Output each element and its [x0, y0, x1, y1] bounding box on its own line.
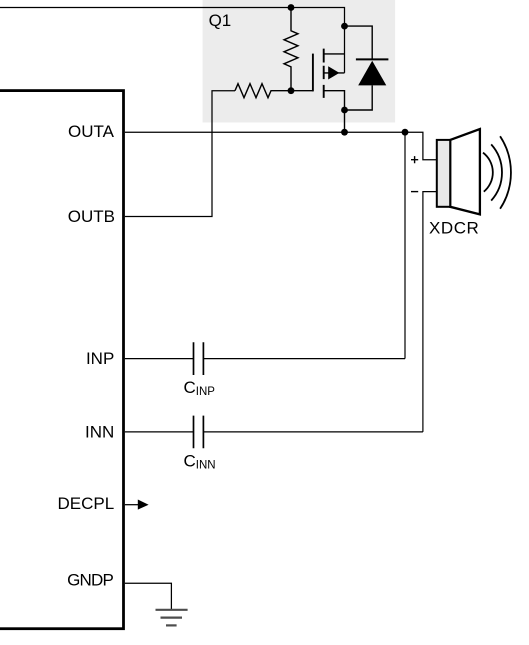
svg-text:INN: INN [85, 422, 114, 441]
ground symbol [156, 609, 188, 611]
junction dot (resistor top / rail) [288, 4, 295, 11]
junction dot (gate node) [288, 87, 295, 94]
svg-text:INP: INP [86, 349, 114, 368]
svg-text:DECPL: DECPL [58, 494, 115, 513]
wire OUTA to transducer plus [125, 132, 437, 160]
svg-text:OUTB: OUTB [68, 207, 115, 226]
transducer minus sign [411, 191, 418, 193]
wire OUTA junction down to INP coupling [404, 132, 406, 358]
wire INN to capacitor [125, 431, 194, 433]
svg-text:Q1: Q1 [209, 11, 231, 30]
sound wave arc 3 [500, 136, 511, 209]
IC block (partial, left) [0, 91, 124, 629]
sound wave arc 1 [483, 153, 493, 192]
transducer plus sign [411, 156, 418, 163]
speaker XDCR body [437, 140, 450, 207]
speaker XDCR cone [450, 129, 480, 214]
wire diode branch top [345, 26, 373, 59]
wire transducer minus down to INN coupling [423, 192, 437, 432]
diode cathode bar [356, 58, 389, 60]
capacitor CINP plates [194, 342, 204, 375]
transistor Q1 channel segments [323, 49, 325, 98]
transistor Q1 source connection [324, 91, 345, 110]
transistor Q1 body arrow [328, 66, 339, 79]
DECPL arrowhead [138, 500, 149, 510]
diode body [358, 61, 386, 86]
transistor Q1 drain connection [324, 53, 345, 55]
wire capacitor to INP branch [203, 358, 405, 360]
junction dot (OUTA at INP branch) [402, 129, 409, 136]
wire capacitor to INN branch [203, 431, 423, 433]
svg-text:OUTA: OUTA [68, 122, 115, 141]
wire OUTB to gate resistor [125, 91, 235, 217]
junction dot (OUTA at FET leg) [341, 129, 348, 136]
wire GNDP to ground [125, 583, 171, 609]
wire gate junction to MOSFET gate [291, 90, 313, 92]
junction dot (diode branch / rail) [341, 23, 348, 30]
resistor (gate pull-up, vertical) [284, 8, 298, 91]
svg-text:XDCR: XDCR [429, 219, 479, 238]
resistor (gate series, horizontal) [235, 84, 291, 98]
Q1 highlight box [203, 0, 396, 123]
capacitor CINN plates [194, 416, 204, 449]
sound wave arc 2 [491, 144, 502, 200]
wire diode anode to source junction [345, 85, 373, 110]
wire source junction to OUTA net [344, 110, 346, 132]
transistor Q1 body line [324, 72, 345, 74]
wire top supply rail to drain of Q1 [0, 8, 345, 73]
svg-text:GNDP: GNDP [67, 571, 113, 590]
DECPL stub wire [125, 504, 138, 506]
wire INP to capacitor [125, 358, 194, 360]
junction dot (source-diode-anode) [341, 107, 348, 114]
transistor Q1 (P-FET) gate bar [312, 54, 314, 92]
